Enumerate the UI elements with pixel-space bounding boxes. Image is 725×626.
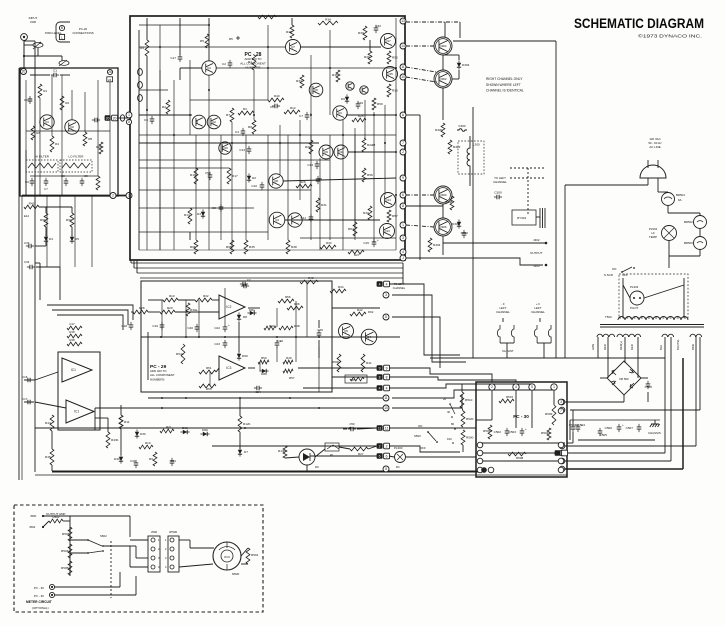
junction bus337 [276,336,278,338]
svg-text:R17: R17 [232,174,238,178]
junction PC-28 [373,114,375,116]
svg-text:C7: C7 [44,187,48,191]
pin 11b connector [377,425,383,431]
svg-text:R35: R35 [249,245,255,249]
bus 398 [148,397,383,399]
wire R27 to pin [368,446,377,449]
wire vertical rail [189,60,191,135]
resistor R31 [316,198,320,212]
transformer T500 core [600,325,704,328]
wire pin2 right [389,446,460,452]
svg-text:11: 11 [401,65,405,69]
wire R46 top [291,18,293,25]
wire pin4 down [515,390,517,428]
wire [129,546,131,567]
resistor R500 [461,430,465,445]
wire R45 down [51,465,53,471]
resistor R503 [68,527,72,541]
wire pin2 down [491,390,493,401]
wire vertical rail [245,135,247,240]
svg-text:M500: M500 [232,572,240,576]
bus bottom second [35,474,567,476]
wire right end [402,263,404,283]
svg-text:3: 3 [385,293,387,297]
wire BR500 down [699,249,701,256]
wire [35,262,40,264]
capacitor C3 [150,119,155,121]
lamp PL300 [395,452,406,463]
wire nest1 [47,305,133,320]
pin 2 PC-28 left [126,193,132,199]
svg-text:2: 2 [402,150,404,154]
svg-text:Q13: Q13 [384,229,390,233]
svg-text:P1: P1 [330,453,334,457]
resistor R32 [368,206,372,220]
svg-text:C11: C11 [301,216,307,220]
resistor R42 [350,312,366,316]
wire horizontal rail [300,237,396,239]
svg-text:8: 8 [402,204,404,208]
wire IC2 out [248,307,260,309]
svg-text:20: 20 [106,116,110,120]
junction PC-28 [231,142,233,144]
svg-text:C507: C507 [626,426,634,430]
transistor Q9 [319,145,333,159]
svg-text:ON: ON [612,267,616,271]
svg-text:R48: R48 [294,324,300,328]
breaker BR500 [694,237,707,250]
wire vertical rail [364,100,366,138]
diode D4 [44,237,48,241]
wire top output bus [453,40,556,42]
switch S300 slider [28,163,56,168]
svg-text:©1973 DYNACO INC.: ©1973 DYNACO INC. [638,33,702,40]
wire bridge bottom down [623,395,625,402]
wire RED center lead [624,337,626,363]
junction PC-28 [267,46,269,48]
wire [107,418,109,432]
svg-text:BRN: BRN [691,344,695,350]
wire filter row [26,130,110,132]
svg-text:R5: R5 [88,137,92,141]
fuse F30x [511,325,514,343]
svg-text:Q15: Q15 [387,72,393,76]
wire to meter [190,547,214,549]
diode D8b [262,369,266,373]
svg-text:C504: C504 [578,423,586,427]
svg-text:R12: R12 [290,106,296,110]
resistor R47 [264,326,276,330]
diode D51 [236,36,240,40]
svg-text:PC - 30: PC - 30 [34,586,44,590]
bus 461 [565,460,671,462]
resistor R10a [163,298,178,302]
svg-text:5: 5 [385,467,387,471]
transformer T500 secondary 4 [690,334,702,337]
svg-text:ON: ON [418,424,422,428]
svg-text:C6: C6 [25,180,29,184]
svg-text:D6: D6 [315,465,319,469]
svg-text:Q302: Q302 [439,77,446,81]
svg-text:C17: C17 [69,322,75,326]
resistor R38 [286,240,290,254]
wire IC2 in2 [175,311,219,313]
wire vertical rail [329,135,331,240]
resistor R51 [199,370,216,374]
capacitor C21t [243,282,245,287]
resistor R30a [186,303,190,316]
pin PC-30 bottom-left [477,458,483,464]
svg-text:11: 11 [384,396,388,400]
capacitor C17 [178,57,183,59]
svg-text:R50b: R50b [332,360,340,364]
svg-text:R56: R56 [367,173,373,177]
wire BR502-BR500 [699,229,701,237]
wire corner down [459,22,461,38]
svg-text:Q4: Q4 [275,218,279,222]
svg-text:R4: R4 [140,46,144,50]
pot P300 level [33,43,43,48]
wire left inner vertical [21,196,23,480]
wire to BR504 [658,191,668,193]
resistor R45 [336,70,340,82]
junction PC-28 [253,114,255,116]
svg-text:J500: J500 [151,530,158,534]
svg-text:11: 11 [378,426,382,430]
svg-text:PL304: PL304 [630,285,639,289]
wire C17 stub [24,401,34,403]
svg-text:S502: S502 [100,534,107,538]
svg-text:2: 2 [386,444,388,448]
bus mid horizontal [140,277,403,279]
capacitor C2 [28,99,33,101]
capacitor C32b [134,463,139,465]
svg-text:R42: R42 [357,308,363,312]
resistor R36 [387,84,391,97]
junction bus [161,407,163,409]
resistor R36b [287,306,303,310]
wire Q4 row [285,219,380,221]
junction [23,55,25,57]
svg-text:D8: D8 [243,315,247,319]
lamp PL304 [630,291,644,305]
svg-text:C505: C505 [600,433,608,437]
wire horizontal rail [139,207,254,209]
transistor Q16 [219,142,231,154]
PC-20 connections bracket [56,22,70,42]
pin 6 connector [377,453,383,459]
resistor R43 [24,205,39,209]
wire C25 down [318,340,320,358]
wire rail2 [159,70,161,250]
resistor R508 [508,452,526,456]
svg-text:Q7: Q7 [291,45,295,49]
pin PC-30 bottom-right [558,467,564,473]
wire vertical rail [220,135,222,240]
fuse F300 [457,129,467,132]
diode D302 [457,222,461,226]
wire [443,54,459,56]
pin 13 PC-28 right edge [400,18,406,24]
svg-text:R31: R31 [321,203,327,207]
pin 20 filter box corner [21,69,27,75]
junction PC-28 [395,194,397,196]
fuse F30x [497,325,500,343]
bus right vertical [555,41,557,358]
connector J500 strip [148,536,160,572]
svg-text:9: 9 [386,366,388,370]
wire row 143 [139,142,319,144]
transistor QD [288,213,302,227]
pin 3 PC-30 right [558,399,564,405]
svg-text:BR504: BR504 [676,193,685,197]
pin PC-30 bottom-left [477,450,483,456]
svg-text:6A: 6A [678,198,682,202]
svg-text:R47: R47 [269,324,275,328]
svg-text:2: 2 [379,444,381,448]
pin 1 PC-28 left [126,112,132,118]
transformer T500 secondary 3 [662,334,674,337]
svg-text:R28: R28 [139,306,145,310]
wire [567,442,573,444]
wire Q8 to pin 9 [283,178,396,181]
transistor QB [192,115,206,129]
svg-text:R27: R27 [354,253,360,257]
wire horizontal rail [139,159,330,161]
wire P1 to R27 [339,447,350,449]
resistor R65 [230,240,234,254]
wire down from bus408 [94,408,96,430]
wire vertical rail [173,80,175,250]
wire R4 up [146,18,148,40]
svg-text:HI FILTER: HI FILTER [35,155,50,159]
capacitor C302 [462,233,467,235]
wire pin5 down [531,390,533,428]
junction PC-28 [279,142,281,144]
diode D3 [201,212,205,216]
lamp PL502 [662,226,677,241]
svg-text:40: 40 [447,410,451,414]
transistor Q1 [40,115,54,129]
svg-text:S500: S500 [414,434,421,438]
svg-text:7: 7 [560,409,562,413]
wire vertical rail [279,125,281,175]
svg-text:R34: R34 [325,17,331,21]
svg-text:D4: D4 [49,237,53,241]
wire down to switch [668,256,670,268]
wire primary left [622,278,624,318]
resistor R12b [238,416,242,432]
wire filter rail [71,90,73,120]
wire pot down [37,48,39,56]
wire dashed vertical [527,168,529,216]
svg-text:Q9: Q9 [324,150,328,154]
transistor Q11 [334,145,348,159]
wire Q300-Q306 [442,204,444,218]
svg-text:R503: R503 [62,532,70,536]
bus PC-30 inner [478,442,565,444]
wire to pin4b [303,387,377,389]
wire pin13 to Q304 [406,21,460,23]
svg-text:R57: R57 [289,376,295,380]
junction PC-28 [354,151,356,153]
capacitor C5b [208,175,213,177]
capacitor C503 [520,431,525,433]
resistor R26b [296,184,312,188]
pin 4 connector [377,281,383,287]
junction PC-28 [329,67,331,69]
svg-text:Q4: Q4 [367,335,371,339]
wire bottom rail PC-28 [139,249,396,251]
resistor R44c [330,289,346,293]
wire [133,260,135,268]
svg-text:24: 24 [108,78,112,82]
wire filter rail [61,75,63,196]
transistor Q13 [380,224,395,239]
svg-text:RED(+): RED(+) [619,341,623,350]
transformer T500 secondary 2 [617,334,641,337]
pin 2 bus [110,193,116,199]
wire to R90 [71,207,73,213]
resistor R510 [460,392,464,408]
wire pin14 to Q304 [406,45,436,47]
pot P1 [325,443,339,451]
diode D7 [238,450,242,454]
resistor R40 [268,98,284,102]
wire to switch2 [70,552,88,554]
transistor Q306 [434,218,452,236]
capacitor C504 [576,427,581,429]
resistor R56 [362,168,366,182]
svg-text:R59: R59 [261,356,267,360]
resistor R29a [160,310,175,314]
wire C1 left [30,74,50,76]
transformer T500 primary [618,317,688,321]
resistor R49 [283,360,293,364]
wire Q306 down [442,236,444,255]
wire R500 down [462,445,464,452]
capacitor C18 [129,325,134,327]
wire BRN lead2 [699,337,701,410]
svg-text:R500: R500 [466,436,474,440]
wire plug right down [657,178,659,192]
svg-text:R49: R49 [286,356,292,360]
svg-text:R320: R320 [435,128,443,132]
wire horizontal rail [139,167,229,169]
junction PC-28 [310,114,312,116]
svg-text:GRN: GRN [591,344,595,350]
svg-text:D8b: D8b [261,372,267,376]
resistor R55a [199,384,216,388]
wire GRN lead [597,337,599,358]
wire to P301 [61,56,63,61]
svg-text:3: 3 [560,400,562,404]
svg-text:C22: C22 [214,326,220,330]
svg-text:F300: F300 [458,124,465,128]
svg-text:R504m: R504m [61,549,71,553]
resistor R7 [230,108,234,122]
svg-text:OUTPUT: OUTPUT [530,251,543,255]
wire to J303 [406,258,543,265]
wire R11 top [120,405,122,415]
resistor R56a [278,299,294,303]
svg-text:C2: C2 [222,62,226,66]
pin 9 PC-28 right edge [400,175,406,181]
resistor R8h [350,377,364,381]
pin 1 PC-28 right edge [400,222,406,228]
svg-text:IC1: IC1 [71,368,76,372]
svg-text:R510: R510 [465,398,473,402]
op-amp IC2 [219,295,245,319]
svg-text:Q2: Q2 [212,120,216,124]
wire Q1 base [180,67,202,69]
wire C50 right [357,428,377,429]
resistor R32a [195,298,212,302]
terminal J502 [42,526,44,528]
svg-text:CHASSIS: CHASSIS [648,431,661,435]
wire PL502 down [668,241,670,256]
wire [131,311,133,313]
svg-text:D8a: D8a [249,308,255,312]
svg-text:IC3: IC3 [226,366,231,370]
svg-text:(OPTIONAL): (OPTIONAL) [32,606,49,610]
wire left rail down [91,196,93,267]
diode D4b [119,457,123,461]
wire up2 [135,576,137,595]
svg-text:7: 7 [402,141,404,145]
resistor R57a [283,369,293,373]
wire [136,260,138,273]
svg-text:R13b: R13b [278,449,286,453]
op-amp IC3 [219,356,245,380]
resistor R14 [188,208,192,224]
wire R12 top [239,398,241,416]
wire R43 to R96 [45,207,47,213]
wire Q304-Q302 [442,55,444,70]
wire vertical rail [342,120,344,250]
svg-text:R36: R36 [392,89,398,93]
pin A PC-28 right edge [400,112,406,118]
svg-text:IC2: IC2 [226,305,231,309]
diode D8a [250,311,254,315]
wire C33 junction [35,245,46,247]
diode D61 [183,430,187,434]
bus mid horizontal [131,262,403,264]
pin 5 connector [383,466,389,472]
junction bus [185,397,187,399]
wire left rail pc29 [147,332,149,380]
resistor R5 [83,132,87,146]
bus 446 [565,445,696,447]
resistor R33 [320,245,336,249]
resistor R18 [67,334,82,338]
svg-text:14: 14 [401,44,405,48]
svg-text:9: 9 [402,176,404,180]
svg-text:4: 4 [402,250,404,254]
pin 10 connector [383,405,389,411]
svg-text:IC1: IC1 [74,410,79,414]
pin PC-30 ref2 [49,592,54,597]
resistor R502 [49,519,63,523]
resistor R504v [547,428,551,440]
capacitor C9 [316,179,321,181]
wire pin6 to Q300 [406,194,434,196]
capacitor C29 [356,104,361,106]
wire filter to PC-28 [118,117,130,119]
op-amp IC1 [66,400,94,423]
svg-text:+: + [622,423,624,427]
resistor R4 [50,136,54,152]
